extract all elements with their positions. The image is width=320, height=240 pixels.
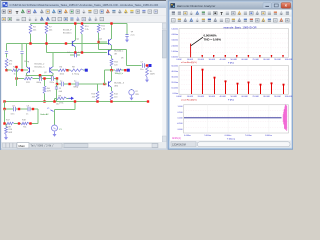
capacitor C4: [70, 54, 74, 56]
svg-text:60.00K: 60.00K: [241, 59, 248, 61]
resistor R5: [24, 77, 33, 80]
capacitor J3 to rail: [56, 84, 58, 87]
capacitor C10 2.2u with ground: [126, 24, 128, 35]
svg-text:10.00m: 10.00m: [171, 88, 178, 90]
svg-text:AFML(1): AFML(1): [172, 137, 181, 140]
v scrollbar: [162, 23, 166, 142]
transistor Q6 output BC546L_3: [105, 70, 108, 84]
resistor RL 100R: [146, 67, 149, 78]
svg-text:F (Hz): F (Hz): [228, 62, 234, 64]
svg-text:20.00K: 20.00K: [198, 59, 205, 61]
transistor Q3: [49, 67, 51, 72]
svg-text:1k: 1k: [14, 74, 16, 76]
transistor Q4: [99, 41, 108, 43]
svg-text:40.00K: 40.00K: [220, 96, 227, 98]
svg-text:100.00K: 100.00K: [285, 96, 293, 98]
right title bar: [169, 2, 292, 10]
output node row y70.2: [105, 69, 116, 71]
port arrow: [69, 97, 72, 99]
svg-text:Harmonic Distortion Analyzer: Harmonic Distortion Analyzer: [177, 4, 216, 8]
svg-text:5.000m: 5.000m: [204, 135, 211, 137]
left window frame: [0, 0, 168, 150]
svg-text:aCumReal(f)(%): aCumReal(f)(%): [181, 62, 197, 64]
svg-text:30.00K: 30.00K: [209, 96, 216, 98]
svg-text:10u: 10u: [140, 69, 143, 71]
resistor Rd 22R: [44, 79, 46, 87]
svg-text:BC546_P: BC546_P: [63, 30, 72, 32]
svg-text:50.00K: 50.00K: [231, 96, 238, 98]
svg-text:4.000m: 4.000m: [184, 135, 191, 137]
svg-text:30.00K: 30.00K: [209, 59, 216, 61]
svg-text:BC546L_2: BC546L_2: [35, 64, 46, 66]
svg-text:1Meg3_b: 1Meg3_b: [115, 73, 124, 75]
svg-text:-1.000: -1.000: [177, 129, 184, 131]
svg-text:20.00K: 20.00K: [198, 96, 205, 98]
plot1 frame: [179, 29, 289, 58]
resistor R3 24k: [30, 24, 32, 44]
resistor R9 feedback takeoff: [54, 98, 56, 101]
annotation callout: [191, 37, 203, 46]
svg-text:BC546LC: BC546LC: [114, 51, 124, 53]
svg-text:T: T: [220, 11, 223, 16]
svg-text:-0.500: -0.500: [177, 123, 184, 125]
resistor R15 small: [116, 69, 122, 72]
svg-text:Main: Main: [19, 144, 26, 148]
resistor R11 1.2k: [98, 24, 100, 50]
svg-text:10.00K: 10.00K: [187, 59, 194, 61]
svg-text:10u: 10u: [56, 104, 59, 106]
resistor R14 120: [110, 91, 113, 101]
wire bias rail y49.5: [99, 49, 127, 51]
feedback row y84 with caps: [56, 79, 58, 85]
svg-text:60.00K: 60.00K: [241, 96, 248, 98]
resistor R2 1k: [7, 69, 12, 71]
plot3 frame: [184, 105, 289, 133]
right window frame: [168, 1, 293, 149]
wire emitter rail: [27, 74, 53, 76]
capacitor C5: [40, 76, 42, 80]
svg-text:1u: 1u: [60, 81, 62, 83]
svg-text:0.000m: 0.000m: [171, 56, 178, 58]
svg-text:175k: 175k: [59, 103, 63, 105]
right toolbar row2: [170, 17, 292, 24]
svg-text:1n: 1n: [26, 114, 28, 116]
bottom-left resistors R17 R18: [5, 109, 7, 124]
svg-text:T (Secs): T (Secs): [227, 138, 235, 140]
svg-text:50.00K: 50.00K: [231, 59, 238, 61]
source V1: [54, 110, 56, 125]
svg-text:BC546LC: BC546LC: [63, 33, 72, 35]
source V1 wiring: [55, 102, 76, 110]
right toolbar row1: [170, 10, 292, 17]
svg-text:12D|45X|OM: 12D|45X|OM: [172, 144, 186, 147]
svg-text:1.000: 1.000: [177, 106, 183, 108]
schematic canvas: [1, 23, 163, 142]
svg-text:80.00K: 80.00K: [263, 96, 270, 98]
svg-text:4.7meg: 4.7meg: [72, 74, 80, 76]
svg-text:90.00K: 90.00K: [274, 59, 281, 61]
svg-text:40.00K: 40.00K: [220, 59, 227, 61]
toolbar row 1: [1, 8, 166, 16]
wire top supply rail: [31, 23, 128, 25]
svg-text:1.000m: 1.000m: [171, 51, 178, 53]
long mid rail y101.5: [5, 101, 149, 103]
ground at C10: [126, 37, 128, 40]
svg-text:BC546L_3: BC546L_3: [114, 82, 125, 84]
plot2 frame: [179, 66, 289, 95]
plot3 flat trace: [184, 117, 282, 119]
wire left col to bottom: [4, 102, 6, 110]
source V2 28V: [131, 89, 133, 90]
plot1 harmonic stems: [190, 44, 192, 58]
svg-text:80.00K: 80.00K: [263, 59, 270, 61]
svg-text:0.00m: 0.00m: [172, 93, 178, 95]
svg-text:8.000m: 8.000m: [265, 135, 272, 137]
plot2 harmonic stems: [191, 66, 193, 94]
svg-text:THD = 0,06%: THD = 0,06%: [204, 38, 222, 42]
resistor R13: [97, 84, 99, 91]
svg-text:3.000m: 3.000m: [171, 40, 178, 42]
svg-text:90.00K: 90.00K: [274, 96, 281, 98]
capacitor C3: [21, 44, 23, 51]
svg-text:Rd: Rd: [47, 88, 50, 90]
svg-text:24k: 24k: [49, 30, 52, 32]
capacitor C1 input top: [6, 44, 8, 51]
svg-text:aCumReal(f)(%): aCumReal(f)(%): [181, 99, 197, 101]
wire rail y52: [47, 52, 108, 54]
svg-text:0.000: 0.000: [177, 117, 183, 119]
resistor R1 4k1: [5, 59, 8, 69]
resistor R12 120: [110, 59, 113, 67]
svg-text:60R: 60R: [9, 132, 13, 134]
svg-text:1.2k: 1.2k: [101, 29, 105, 31]
svg-text:70.00K: 70.00K: [252, 96, 259, 98]
output wire with capacitor C7: [126, 50, 128, 66]
svg-text:3.5n: 3.5n: [11, 114, 15, 116]
svg-text:0.00K: 0.00K: [176, 59, 182, 61]
left title bar: [1, 1, 166, 8]
right status bar: [170, 141, 292, 148]
svg-text:2u: 2u: [74, 81, 76, 83]
wire rail y43: [7, 43, 110, 45]
svg-text:22R: 22R: [26, 82, 30, 84]
svg-text:4.000m: 4.000m: [171, 34, 178, 36]
svg-text:100.00K: 100.00K: [285, 59, 293, 61]
svg-text:F (Hz): F (Hz): [228, 100, 234, 102]
svg-text:70.00K: 70.00K: [252, 59, 259, 61]
svg-text:20.00m: 20.00m: [171, 82, 178, 84]
svg-text:50.00m: 50.00m: [171, 66, 178, 68]
svg-text:2.2k: 2.2k: [85, 29, 89, 31]
svg-text:24k: 24k: [33, 30, 36, 32]
resistor R7 24k: [46, 24, 48, 53]
tab bar: [1, 142, 166, 149]
ground RL: [146, 77, 148, 80]
toolbar row 2: [1, 16, 166, 23]
svg-text:5.000m: 5.000m: [171, 29, 178, 31]
svg-text:22R: 22R: [47, 91, 51, 93]
svg-text:7.000m: 7.000m: [245, 135, 252, 137]
resistor R6 100k: [51, 69, 58, 71]
port node out: [127, 69, 130, 72]
port node: [84, 69, 86, 71]
svg-text:0.00K: 0.00K: [176, 96, 182, 98]
resistor R16: [5, 124, 7, 127]
svg-text:100R: 100R: [150, 74, 155, 76]
svg-text:C:\SIM-W-GA SirPattern\Mainfra: C:\SIM-W-GA SirPattern\Mainframewerks_Ta…: [10, 3, 159, 7]
svg-text:75k: 75k: [23, 127, 26, 129]
svg-text:T: T: [16, 10, 19, 15]
resistor R10 2.2k: [81, 24, 83, 53]
svg-text:40.00m: 40.00m: [171, 71, 178, 73]
transistor Q5 BC546LC 4R: [108, 50, 110, 55]
svg-text:30.00m: 30.00m: [171, 77, 178, 79]
svg-text:220u: 220u: [50, 82, 54, 84]
svg-text:BC546L_C: BC546L_C: [35, 67, 46, 69]
ground V1: [54, 131, 56, 134]
capacitor C6: [52, 76, 54, 80]
svg-text:10.00K: 10.00K: [187, 96, 194, 98]
svg-text:4.7u: 4.7u: [78, 52, 82, 54]
emitter row y78.5: [17, 78, 25, 80]
svg-text:0.500: 0.500: [177, 112, 183, 114]
svg-text:6.000m: 6.000m: [225, 135, 232, 137]
resistor R8 4.7meg: [68, 69, 71, 71]
wire collector/emitter columns: [26, 44, 28, 76]
svg-text:Tail ╱ 9086 ╱ 2-9k ╱: Tail ╱ 9086 ╱ 2-9k ╱: [31, 144, 54, 148]
wire left column: [16, 67, 18, 86]
svg-text:GmbcA2: GmbcA2: [40, 113, 49, 116]
ground R16: [5, 135, 7, 138]
graph page: [170, 24, 291, 141]
ground V2: [131, 95, 133, 98]
plot3 burst: [283, 104, 287, 131]
svg-text:2.000m: 2.000m: [171, 45, 178, 47]
transistor Q2: [29, 67, 31, 72]
bottom-left filter chain caps: [5, 108, 14, 110]
port node load: [149, 64, 152, 67]
